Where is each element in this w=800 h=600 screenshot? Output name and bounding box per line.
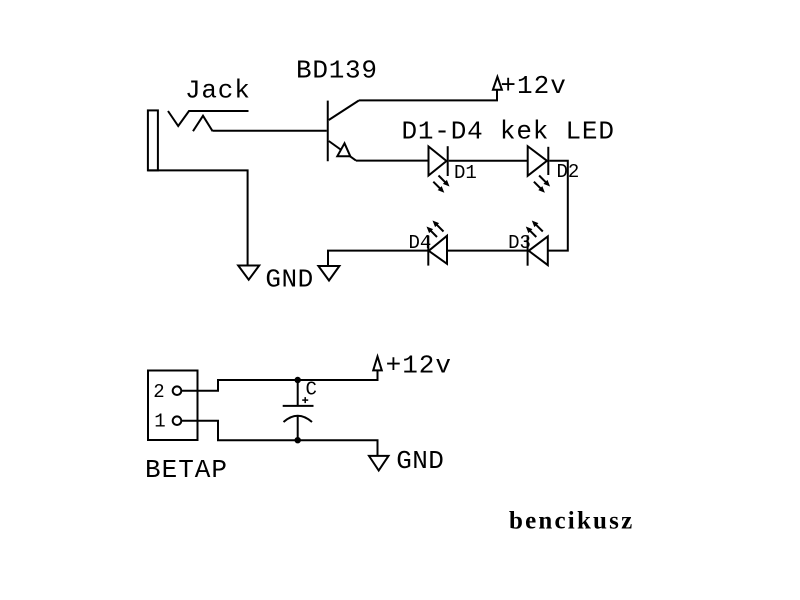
LED D1: [429, 146, 450, 193]
ground GND1: [238, 266, 259, 280]
wire D1 to D2: [449, 160, 528, 162]
connector X1 BETAP: [148, 371, 198, 441]
jack J1 ring contact: [193, 116, 213, 131]
svg-text:C: C: [306, 379, 317, 401]
wire D2 cathode down to row 2: [548, 161, 568, 251]
jack J1 sleeve: [148, 110, 158, 170]
LED D3: [526, 221, 548, 266]
LED D2: [528, 146, 550, 193]
svg-text:2: 2: [153, 381, 164, 403]
ground GND3: [369, 456, 389, 471]
svg-text:BETAP: BETAP: [145, 455, 228, 485]
junction node bottom rail: [295, 437, 301, 443]
wire pin 2 to +12v rail: [181, 371, 377, 391]
svg-text:1: 1: [154, 410, 165, 432]
wire D3 to D4: [447, 250, 528, 252]
wire D4 to ground: [328, 251, 428, 266]
transistor Q1 BD139: [328, 100, 359, 161]
power +12v top: [493, 77, 502, 90]
capacitor C1: [283, 380, 314, 440]
wire pin 1 to ground rail: [181, 421, 377, 456]
junction node top rail: [295, 377, 301, 383]
polarity plus of C: [302, 397, 308, 403]
power +12v bottom: [373, 357, 382, 371]
svg-text:D1: D1: [454, 162, 477, 184]
wire collector to +12v: [359, 90, 497, 100]
jack J1 tip contact: [168, 111, 249, 126]
wire emitter to D1: [356, 160, 429, 162]
wire sleeve to ground: [148, 170, 248, 265]
svg-text:D1-D4 kek LED: D1-D4 kek LED: [402, 116, 615, 146]
svg-text:BD139: BD139: [296, 55, 378, 85]
svg-text:+12v: +12v: [500, 71, 566, 101]
ground GND2: [318, 266, 339, 281]
svg-text:bencikusz: bencikusz: [509, 508, 634, 535]
wire base (ring contact to Q1 base): [213, 130, 327, 132]
svg-text:Jack: Jack: [185, 75, 251, 105]
svg-text:+12v: +12v: [386, 351, 452, 381]
LED D4: [427, 221, 448, 266]
svg-text:GND: GND: [265, 265, 313, 295]
svg-text:GND: GND: [396, 446, 444, 476]
